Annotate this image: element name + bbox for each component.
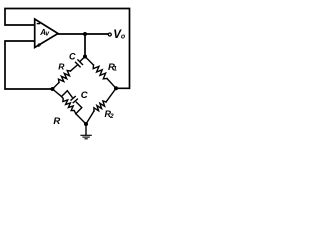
- wire noninverting loop (left): [5, 41, 53, 89]
- resistor R (series, top-left arm): [59, 71, 71, 83]
- wire bridge top to capacitor: [80, 57, 85, 62]
- svg-text:R: R: [58, 61, 65, 71]
- wire left node into parallel RC: [53, 89, 62, 97]
- node bridge bottom: [84, 122, 88, 126]
- resistor R1: [93, 65, 107, 79]
- resistor R (parallel, bottom-left arm): [62, 97, 76, 114]
- wire bridge top to R1: [85, 57, 94, 66]
- wire right node to R2: [106, 88, 116, 102]
- op-amp plus sign: [37, 43, 41, 47]
- resistor R2: [94, 101, 106, 111]
- svg-text:o: o: [121, 34, 126, 41]
- wire output: [58, 33, 108, 35]
- op-amp U1: [35, 19, 58, 48]
- svg-text:C: C: [69, 52, 76, 62]
- wire inverting feedback loop (top): [5, 9, 130, 89]
- junction dot at output: [83, 32, 87, 36]
- node bridge top: [83, 55, 87, 59]
- wire resistor to left node: [53, 83, 60, 90]
- op-amp minus sign: [37, 23, 41, 24]
- wire capacitor to resistor: [71, 65, 78, 71]
- svg-text:C: C: [81, 90, 88, 101]
- node bridge right: [114, 86, 118, 90]
- capacitor C (parallel, bottom-left arm): [71, 97, 75, 101]
- wire capacitor branch upper corner: [62, 91, 73, 97]
- wire R1 to right node: [107, 79, 116, 89]
- svg-text:2: 2: [109, 113, 114, 120]
- capacitor C (series, top-left arm): [78, 60, 83, 65]
- ground bars: [80, 135, 91, 139]
- svg-text:1: 1: [113, 66, 117, 73]
- wire merge to bottom node: [76, 114, 86, 124]
- wire capacitor to merge corner: [76, 102, 82, 114]
- terminal Vo open circle: [108, 33, 111, 36]
- ground stub: [85, 124, 87, 135]
- wire output drop to bridge top: [84, 34, 86, 57]
- wire R2 to bottom node: [86, 111, 94, 124]
- node bridge left: [51, 87, 55, 91]
- svg-text:R: R: [53, 116, 60, 127]
